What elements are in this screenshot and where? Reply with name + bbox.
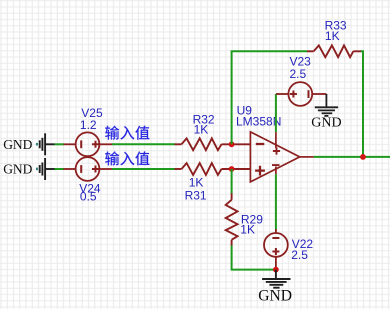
wire xyxy=(112,143,175,145)
wire from R33 down to output node xyxy=(361,51,363,157)
svg-text:1K: 1K xyxy=(240,223,255,237)
output wire xyxy=(314,156,390,158)
wire down to R29 xyxy=(231,169,233,194)
svg-text:GND: GND xyxy=(3,162,32,177)
resistor R29 xyxy=(226,193,238,246)
voltage source V24 xyxy=(64,157,113,181)
feedback wire up and across xyxy=(232,51,307,144)
svg-text:GND: GND xyxy=(258,287,292,304)
junction node OUT xyxy=(360,154,366,160)
op-amp inverting input marker xyxy=(256,143,264,145)
earth ground (bottom) xyxy=(262,270,290,288)
svg-text:GND: GND xyxy=(3,137,32,152)
wire xyxy=(112,168,175,170)
net label 输入值 (upper) xyxy=(105,126,149,140)
wire xyxy=(55,168,65,170)
voltage source V22 xyxy=(264,229,288,270)
power ground port GND (lower left) xyxy=(36,158,55,180)
wire V- supply xyxy=(275,174,277,229)
wire from R29 to V22 bottom node xyxy=(232,246,276,270)
junction node B xyxy=(229,166,235,172)
svg-text:2.5: 2.5 xyxy=(290,67,307,81)
svg-text:LM358N: LM358N xyxy=(236,114,281,128)
voltage source V25 xyxy=(64,132,113,156)
power ground port GND (upper left) xyxy=(36,133,55,155)
junction node A xyxy=(229,141,235,147)
svg-text:GND: GND xyxy=(311,115,341,130)
net label 输入值 (lower) xyxy=(105,151,149,165)
resistor R33 xyxy=(307,45,361,57)
op-amp V- power marker xyxy=(272,164,280,166)
wire V+ supply xyxy=(275,94,277,132)
resistor R32 xyxy=(175,138,251,150)
op-amp non-inverting input marker xyxy=(255,166,265,176)
svg-text:1K: 1K xyxy=(325,29,340,43)
svg-text:2.5: 2.5 xyxy=(291,248,308,262)
svg-text:0.5: 0.5 xyxy=(80,189,97,203)
svg-text:R31: R31 xyxy=(185,188,207,202)
earth ground (top right) xyxy=(315,94,338,116)
op-amp U1 triangle xyxy=(250,132,313,182)
op-amp V+ power marker xyxy=(273,147,280,154)
junction node C xyxy=(273,267,279,273)
svg-text:1K: 1K xyxy=(194,123,209,137)
voltage source V23 xyxy=(276,82,327,106)
svg-text:1.2: 1.2 xyxy=(80,118,97,132)
resistor R31 xyxy=(175,163,251,175)
wire xyxy=(55,143,65,145)
